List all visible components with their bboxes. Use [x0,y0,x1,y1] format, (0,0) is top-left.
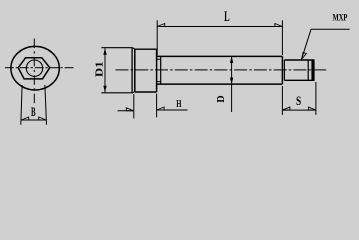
head chamfer line (head left edge) [134,49,136,92]
B extension line left [21,85,22,125]
head face plate left edge [131,48,133,93]
S extension line right [315,82,317,115]
head chamfer top diagonal [133,48,135,50]
H arrow pointing left [157,107,165,110]
undercut top notch line [157,58,161,60]
D arrow up [230,56,233,63]
head outer circle [11,46,59,90]
D dimension line [231,56,233,112]
thread end face (thick) [311,60,314,80]
thread chamfer line [307,60,309,80]
L extension line left [156,20,158,55]
undercut bottom notch line [157,81,161,83]
svg-text:MXP: MXP [333,12,348,23]
svg-text:B: B [31,105,36,119]
head face plate top edge + D1 top extension line [101,47,132,49]
centerline (side view) [116,69,327,71]
B arrow left [21,117,29,120]
L dimension line [157,26,282,28]
D1 arrow up [103,48,106,55]
svg-text:L: L [224,9,230,25]
thread bottom edge [284,79,314,81]
svg-text:S: S [296,93,301,108]
L arrow left [157,24,165,27]
svg-text:D1: D1 [94,61,105,77]
MXP leader diagonal [302,29,312,59]
head top edge [135,48,157,50]
B dimension line [21,119,47,121]
centerline vertical (front view) [33,39,35,104]
D1 arrow down [103,86,106,93]
hex socket [18,58,50,79]
D arrow down [230,78,233,85]
shank top edge [157,55,283,57]
MXP leader horizontal [311,28,350,30]
svg-text:H: H [176,98,181,110]
thread start face [283,60,285,80]
head face plate bottom edge + D1 bottom extension line [101,92,133,94]
S extension line left [281,86,283,115]
H dimension arrow line left (outside) [118,110,134,112]
B extension line right [45,85,47,125]
S arrow left [282,107,290,110]
centerline horizontal (front view) [5,67,74,69]
MXP leader arrow [302,53,307,60]
L arrow right [275,24,283,27]
shank end face [281,56,283,84]
shank bottom edge [157,83,283,85]
undercut vertical line [160,56,162,84]
B arrow right [39,117,47,120]
H arrow pointing right [126,108,134,111]
svg-text:D: D [216,95,227,102]
socket inner circle [26,60,42,76]
S dimension line [282,109,316,111]
head bottom edge [135,91,157,93]
H extension line right [156,94,158,118]
H extension line left [133,94,135,118]
head chamfer bottom diagonal [133,91,135,92]
D1 dimension line [104,48,106,92]
H dimension arrow line right (outside) [157,109,188,111]
thread top edge [284,59,314,61]
L extension line right [281,20,283,55]
S arrow right [308,107,316,110]
head right face [156,49,158,92]
